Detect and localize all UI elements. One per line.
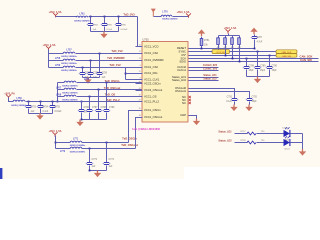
svg-text:600R@100MHz: 600R@100MHz <box>62 93 78 95</box>
pin 47 VCC1_PLL2 <box>136 101 143 103</box>
net label CLKin1_3V3 <box>203 67 218 70</box>
svg-text:L768: L768 <box>56 94 62 96</box>
wire branch 2 <box>49 60 64 62</box>
svg-text:VCC1_DIG: VCC1_DIG <box>144 71 157 75</box>
svg-text:0.01uF: 0.01uF <box>55 111 63 113</box>
ground <box>196 119 198 122</box>
svg-text:CLKin1_3V3: CLKin1_3V3 <box>203 67 218 70</box>
capacitor C753 1uF <box>28 101 30 103</box>
svg-text:RESET: RESET <box>177 46 186 50</box>
node junction <box>55 142 57 144</box>
net label Status_LD2 (LED row) <box>218 139 232 142</box>
wire <box>82 148 136 150</box>
resistor R751 10k pullup <box>201 37 203 39</box>
svg-text:CLKin0_3V3: CLKin0_3V3 <box>203 64 218 67</box>
svg-text:Status_LD1: Status_LD1 <box>218 130 232 133</box>
capacitor C757 1uF <box>82 67 84 69</box>
wire <box>291 133 303 135</box>
wire pullup rail <box>228 34 230 36</box>
svg-text:C753: C753 <box>31 106 37 108</box>
svg-text:OSCout0: OSCout0 <box>175 86 187 90</box>
svg-text:C786: C786 <box>121 24 127 26</box>
inductor L757 <box>63 52 75 53</box>
wire to pin row 79.5 <box>126 79 143 81</box>
wire <box>77 82 143 84</box>
wire <box>77 96 143 98</box>
pin CS* <box>181 53 186 57</box>
ground <box>248 105 250 108</box>
pin RESET <box>177 46 186 50</box>
svg-text:15pF: 15pF <box>260 70 266 72</box>
pin 16 VCC1_OSCout <box>136 117 143 119</box>
wire <box>154 16 162 18</box>
wire branch C <box>58 96 65 98</box>
pin CLKin1 <box>177 68 186 72</box>
svg-text:+3V3_1.5A: +3V3_1.5A <box>48 10 61 14</box>
wire OSCout0 elbow <box>189 89 235 99</box>
svg-text:L757: L757 <box>66 50 72 52</box>
net label TxD_OSCout <box>121 143 138 147</box>
port CAN_SDI (yellow) <box>276 54 297 58</box>
wire elbow to pin OSCin <box>129 111 143 143</box>
wire branch 2 <box>56 148 71 150</box>
pin 15 VCC1_OSCin <box>136 110 143 112</box>
pin NC <box>182 98 186 102</box>
net label TxD_1V2 <box>109 63 121 67</box>
capacitor C787 4.7uF on RESET <box>253 31 255 34</box>
svg-text:VCC1_OSCin: VCC1_OSCin <box>144 108 161 112</box>
power port GND_RF (top-right) <box>151 9 156 13</box>
capacitor C790 15pF <box>269 55 271 57</box>
svg-text:+3V3_1.5A: +3V3_1.5A <box>176 10 189 14</box>
wire <box>77 89 143 91</box>
wire RESET line <box>189 48 255 50</box>
svg-text:600R@100MHz: 600R@100MHz <box>61 70 77 72</box>
svg-text:VCC1_CLK1: VCC1_CLK1 <box>144 78 160 82</box>
svg-text:L771: L771 <box>73 138 79 140</box>
resistor R757 750 <box>241 131 247 133</box>
power port +3V3_1.5A (pullup rail) <box>224 27 237 30</box>
svg-text:C759: C759 <box>102 73 108 75</box>
svg-text:SCK: SCK <box>180 56 186 60</box>
LED D750 Red <box>283 127 289 129</box>
capacitor C785 0.1uF <box>104 17 106 24</box>
svg-text:+3V3_1.5A: +3V3_1.5A <box>48 129 61 133</box>
svg-text:VCC1_VCO: VCC1_VCO <box>144 45 159 49</box>
svg-text:OSCout1: OSCout1 <box>175 89 187 93</box>
capacitor C792 15pF <box>247 99 252 101</box>
svg-text:TxD_1V2: TxD_1V2 <box>109 63 121 67</box>
pin 42 VCC3_OSCout <box>136 90 143 92</box>
svg-text:L766: L766 <box>84 79 90 81</box>
svg-text:NC: NC <box>182 98 186 102</box>
pin NC <box>182 95 186 99</box>
capacitor C773 1uF <box>89 148 91 150</box>
wire <box>76 60 143 62</box>
net label Status_LD1 <box>203 74 217 77</box>
svg-text:L767: L767 <box>56 87 62 89</box>
capacitor C767 <box>89 96 91 98</box>
wire <box>76 67 143 69</box>
capacitor C766 15pF <box>81 101 83 103</box>
wire cap bottoms join <box>29 113 53 115</box>
capacitor C786 0.01uF <box>118 17 120 24</box>
wire Status_LD1 <box>189 77 219 79</box>
svg-text:C774: C774 <box>109 159 115 161</box>
svg-text:Status_LD2: Status_LD2 <box>218 139 232 142</box>
wire cap bottoms join <box>83 77 100 79</box>
pin Status_LD1 <box>172 75 187 79</box>
wire to pin VCC1_VCO <box>138 17 143 47</box>
wire elbow to pin OSCout <box>136 118 143 149</box>
svg-text:VCC1_DVDDRF: VCC1_DVDDRF <box>144 58 164 62</box>
wire vertical bus from PA rail <box>57 83 59 102</box>
svg-text:Status_LD2: Status_LD2 <box>203 77 217 80</box>
svg-text:L761: L761 <box>79 14 85 16</box>
wire <box>9 98 14 102</box>
svg-text:+3V3_PA: +3V3_PA <box>4 93 15 96</box>
svg-text:L758: L758 <box>55 58 61 60</box>
inductor L770 <box>161 15 172 16</box>
svg-text:VCC1_PLL2: VCC1_PLL2 <box>144 100 159 104</box>
pin 13 VCC1_DVDDRF <box>136 60 143 62</box>
svg-text:R758: R758 <box>241 140 247 142</box>
pin CLKin0 <box>177 65 186 69</box>
net label TxD_OS <box>105 93 116 97</box>
wire <box>76 53 143 55</box>
wire to pin row 73 <box>126 73 143 75</box>
svg-text:TxD_DVDDRF: TxD_DVDDRF <box>107 56 125 60</box>
svg-text:VCC1_OS: VCC1_OS <box>144 95 157 99</box>
pin OSCout1 <box>175 89 187 93</box>
net label TxD_DVDDRF <box>107 56 125 60</box>
ground <box>302 149 304 152</box>
svg-text:Status_LD1: Status_LD1 <box>203 74 217 77</box>
inductor L761 <box>76 16 88 17</box>
ground <box>39 113 41 116</box>
wire <box>82 142 129 144</box>
net label TxD_PLL2 <box>106 98 120 102</box>
svg-text:VCC1_OSCout: VCC1_OSCout <box>144 115 162 119</box>
svg-text:VCC3_OSCin: VCC3_OSCin <box>144 82 161 86</box>
wire <box>257 142 284 144</box>
capacitor C774 1uF <box>106 142 108 144</box>
svg-text:R751: R751 <box>204 40 210 42</box>
pin Status_LD2 <box>172 78 187 82</box>
svg-text:C773: C773 <box>92 159 98 161</box>
svg-text:C754: C754 <box>43 106 49 108</box>
power port +3V3_1.5A (mid-left) <box>42 43 55 47</box>
svg-text:600R@100MHz: 600R@100MHz <box>61 56 77 58</box>
pin 8 VCC1_CS2 <box>136 67 143 69</box>
svg-text:CLKin1: CLKin1 <box>177 68 186 72</box>
ground <box>87 77 89 80</box>
wire <box>291 142 303 144</box>
wire branch 1 <box>56 142 71 144</box>
svg-text:1uF: 1uF <box>102 77 107 79</box>
net label TxD_OSCin <box>122 137 137 141</box>
net label TxD_OSCout <box>104 86 121 90</box>
wire cap bottoms join <box>90 170 107 172</box>
svg-text:C785: C785 <box>107 24 113 26</box>
schematic sheet background <box>0 0 320 179</box>
resistor R758 750 <box>241 140 247 142</box>
wire branch A <box>58 82 65 84</box>
pin 45 VCC1_OS <box>136 96 143 98</box>
svg-text:NC: NC <box>182 101 186 105</box>
svg-text:VCC1_CS2: VCC1_CS2 <box>144 65 158 69</box>
svg-text:SDIO: SDIO <box>179 60 186 64</box>
outside-sheet white area bottom right <box>184 167 320 179</box>
ground <box>79 120 81 123</box>
wire branch B <box>58 89 65 91</box>
svg-text:CLKin0: CLKin0 <box>177 65 186 69</box>
power port +3V3_1.5A (top-right) <box>176 10 189 14</box>
LED D751 Green <box>284 139 290 146</box>
wire <box>56 16 77 18</box>
svg-text:15pF: 15pF <box>249 70 255 72</box>
power arrow (RESET pullup) <box>201 33 203 36</box>
svg-text:0.01uF: 0.01uF <box>121 29 128 31</box>
capacitor C784 1uF <box>90 17 92 24</box>
resistor R755 4k7 pullup <box>232 36 234 38</box>
net label Status_LD1 (LED row) <box>218 130 232 133</box>
capacitor C754 0.1uF <box>40 101 42 103</box>
pin DAP <box>180 113 186 117</box>
svg-text:L770: L770 <box>162 12 168 14</box>
resistor R756 4k7 pullup <box>239 36 241 38</box>
svg-text:C767: C767 <box>92 107 98 109</box>
inductor L756 <box>13 100 25 101</box>
inductor L758 <box>63 59 75 60</box>
power port +3V3_1.5A (bottom-left) <box>48 129 61 133</box>
svg-text:0.1uF: 0.1uF <box>107 29 113 31</box>
svg-text:VCC1_CS2: VCC1_CS2 <box>144 51 158 55</box>
svg-text:0.1uF: 0.1uF <box>226 101 232 103</box>
wire <box>257 133 284 135</box>
capacitor C791 0.1uF <box>232 99 237 101</box>
svg-text:CAN_SDI: CAN_SDI <box>300 58 312 62</box>
wire SYNC line <box>189 51 213 53</box>
svg-text:DAP: DAP <box>180 113 186 117</box>
wire cap bottoms join <box>91 31 119 33</box>
svg-text:L772: L772 <box>60 151 66 153</box>
net label TxD_OSCin <box>105 79 120 83</box>
resistor R753 4k7 pullup <box>218 36 220 38</box>
capacitor C788 15pF <box>246 58 248 60</box>
svg-text:600R@100MHz: 600R@100MHz <box>70 152 86 154</box>
svg-text:SYNC: SYNC <box>179 50 187 54</box>
capacitor C755 0.01uF <box>52 101 54 103</box>
pin 9 VCC1_CLK1 <box>136 79 143 81</box>
svg-text:C792: C792 <box>252 96 258 98</box>
ground <box>97 171 99 174</box>
wire CLKin1 <box>189 70 219 72</box>
svg-text:600R@100MHz: 600R@100MHz <box>61 63 77 65</box>
wire SCK line <box>189 58 319 60</box>
wire CLKin0 <box>189 67 219 69</box>
svg-text:TxD_3V3: TxD_3V3 <box>123 12 135 16</box>
wire cap bottoms join <box>82 119 107 121</box>
ground <box>233 105 235 108</box>
wire branch 3 <box>49 67 64 69</box>
capacitor C769 <box>106 82 108 84</box>
svg-text:CAN_SCK: CAN_SCK <box>300 55 313 59</box>
wire <box>235 133 248 135</box>
wire LED cathodes join <box>302 134 304 150</box>
resistor R754 4k7 pullup <box>225 36 227 38</box>
pin 12 VCC1_DIG <box>136 73 143 75</box>
part comment LMK04808 <box>132 128 160 131</box>
svg-text:1uF: 1uF <box>92 166 97 168</box>
pin NC <box>182 101 186 105</box>
net label Status_LD2 <box>203 77 217 80</box>
svg-text:L759: L759 <box>55 65 61 67</box>
svg-text:C787: C787 <box>257 37 263 39</box>
wire vertical to pins VCC1_CLK <box>125 68 127 80</box>
svg-text:1uF: 1uF <box>31 111 36 113</box>
wire <box>26 101 143 103</box>
power port +3V3_PA <box>4 93 15 96</box>
resistor R752 0R series (yellow) <box>212 50 230 54</box>
svg-text:+3V3_1.5A: +3V3_1.5A <box>42 43 55 47</box>
svg-text:0.1uF: 0.1uF <box>43 111 49 113</box>
svg-text:C789: C789 <box>260 65 266 67</box>
wire branch 1 <box>49 53 64 55</box>
wire <box>173 16 189 18</box>
pin SCK <box>180 56 186 60</box>
pin 16 VCC1_VCO <box>136 46 143 48</box>
capacitor C758 1uF <box>90 60 92 62</box>
ground <box>103 32 105 35</box>
svg-text:R757: R757 <box>241 131 247 133</box>
svg-text:4.7uF: 4.7uF <box>257 42 263 44</box>
svg-text:Status_LD2: Status_LD2 <box>172 78 187 82</box>
wire vertical bus <box>48 50 50 68</box>
svg-text:C755: C755 <box>55 106 61 108</box>
op-amp U750 clock IC body <box>142 42 188 123</box>
no-connect marks <box>189 96 191 98</box>
net label CLKin0_3V3 <box>203 64 218 67</box>
svg-text:C791: C791 <box>227 96 233 98</box>
capacitor C759 1uF <box>99 53 101 55</box>
inductor L771 <box>70 141 82 142</box>
inductor L772 <box>70 147 82 148</box>
net label CAN_SDI <box>300 58 312 62</box>
wire OSCout1 elbow <box>189 92 250 99</box>
net label TxD_3V3 <box>123 12 135 16</box>
svg-text:TxD_1V2: TxD_1V2 <box>111 49 123 53</box>
svg-text:15pF: 15pF <box>252 101 258 103</box>
svg-text:CS*: CS* <box>181 53 186 57</box>
pin OSCout0 <box>175 86 187 90</box>
wire vertical <box>55 136 57 149</box>
pin SYNC <box>179 50 187 54</box>
capacitor C768 <box>98 89 100 91</box>
ground <box>257 77 259 80</box>
inductor L767 <box>64 88 76 89</box>
window edge blue bar bottom left <box>0 168 2 179</box>
svg-text:C788: C788 <box>249 65 255 67</box>
wire cap bottoms join <box>247 76 270 78</box>
svg-text:VCC3_OSCout: VCC3_OSCout <box>144 88 162 92</box>
wire SDIO line <box>189 61 319 63</box>
inductor L759 <box>63 66 75 67</box>
svg-text:NC: NC <box>182 95 186 99</box>
power port +3V3_1.5A (top-left) <box>48 10 61 14</box>
svg-text:C769: C769 <box>109 107 115 109</box>
inductor L766 <box>64 81 76 82</box>
svg-text:600R@100MHz: 600R@100MHz <box>162 19 178 21</box>
svg-text:TxD_OSCin: TxD_OSCin <box>122 137 137 141</box>
svg-text:L756: L756 <box>16 98 22 100</box>
pin 36 VCC3_OSCin <box>136 83 143 85</box>
capacitor C789 15pF <box>257 51 259 53</box>
pin 17 VCC1_CS2 <box>136 53 143 55</box>
svg-text:C766: C766 <box>84 107 90 109</box>
inductor L768 <box>64 95 76 96</box>
wire EPAD to ground <box>189 116 197 119</box>
wire <box>235 142 248 144</box>
wire <box>89 16 138 18</box>
svg-text:R752 0R: R752 0R <box>217 52 226 54</box>
wire Status_LD2 <box>189 80 219 82</box>
port CAN_SCK (yellow) <box>276 50 297 54</box>
svg-text:C768: C768 <box>101 107 107 109</box>
svg-text:1uF: 1uF <box>93 29 97 31</box>
svg-text:C790: C790 <box>272 65 278 67</box>
svg-text:1uF: 1uF <box>109 166 114 168</box>
svg-text:600R@100MHz: 600R@100MHz <box>62 86 78 88</box>
svg-text:600R@100MHz: 600R@100MHz <box>74 21 90 23</box>
svg-text:U750: U750 <box>143 38 150 41</box>
wire CS line <box>189 55 277 57</box>
svg-text:3.2V @4MHz LMK04808: 3.2V @4MHz LMK04808 <box>132 128 160 131</box>
net label CAN_SCK <box>300 55 313 59</box>
svg-text:C784: C784 <box>93 24 99 26</box>
svg-text:15pF: 15pF <box>272 70 278 72</box>
net label TxD_1V2 <box>111 49 123 53</box>
pin SDIO <box>179 60 186 64</box>
node junction <box>90 16 92 18</box>
svg-text:Status_LD1: Status_LD1 <box>172 75 187 79</box>
